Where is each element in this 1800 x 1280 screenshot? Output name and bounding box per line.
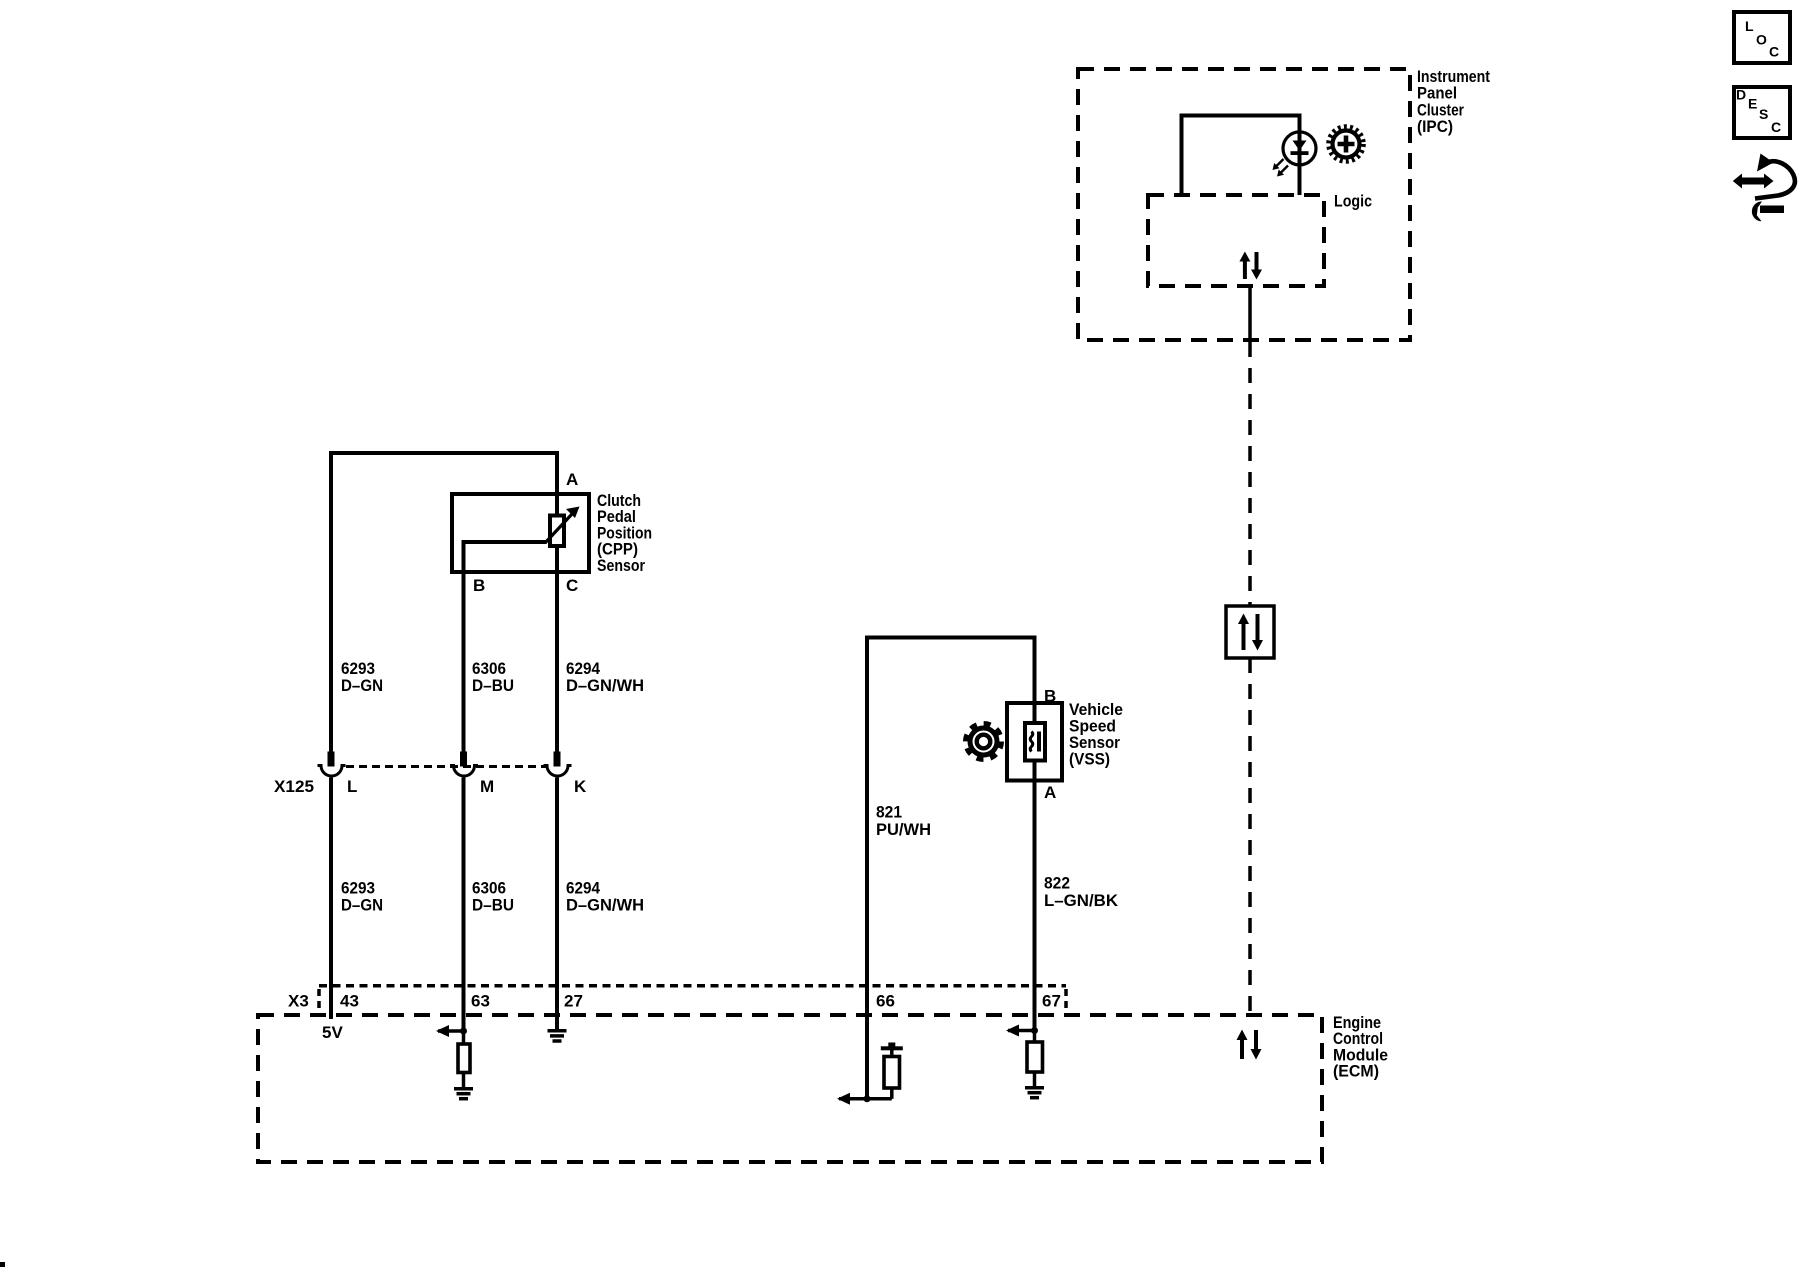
- wire: IPC top horizontal: [1180, 114, 1302, 118]
- svg-text:D: D: [1736, 87, 1746, 103]
- wire: 6293 lower vertical: [329, 778, 333, 1020]
- ECM serial data up/down arrows: [1237, 1030, 1262, 1060]
- wire: 821 vertical: [865, 638, 869, 1016]
- svg-text:D–BU: D–BU: [472, 676, 514, 695]
- wire: resistor R2 to junction: [890, 1088, 894, 1099]
- ground (pin 27): [548, 1031, 567, 1041]
- svg-text:C: C: [566, 576, 578, 595]
- wire: dashed data line upper: [1248, 342, 1252, 606]
- svg-text:L: L: [1745, 18, 1754, 34]
- svg-text:O: O: [1756, 32, 1767, 48]
- VSS gear icon: [966, 724, 1002, 760]
- Logic dashed box: [1148, 195, 1324, 286]
- wire label 6293 D-GN lower: [341, 878, 383, 914]
- connector pin K: [544, 752, 572, 777]
- svg-text:B: B: [1044, 687, 1056, 706]
- wire label 6306 D-BU lower: [472, 878, 514, 914]
- connector pin L: [318, 752, 346, 777]
- VSS box: [1007, 703, 1062, 781]
- CPP sensor label: [597, 491, 652, 575]
- supply terminal (pin 66 pull-up): [881, 1043, 903, 1057]
- wire label 6294 D-GN/WH lower: [566, 878, 644, 914]
- svg-text:6294: 6294: [566, 659, 600, 678]
- svg-text:6293: 6293: [341, 659, 375, 678]
- wire: 6294 vertical pin C: [555, 544, 559, 752]
- svg-text:6294: 6294: [566, 878, 600, 897]
- svg-text:M: M: [480, 777, 494, 796]
- svg-text:27: 27: [564, 991, 583, 1010]
- svg-text:63: 63: [471, 991, 490, 1010]
- svg-text:X3: X3: [288, 991, 309, 1010]
- connector pin M: [450, 752, 478, 777]
- wire: pin A vertical: [555, 453, 559, 517]
- svg-text:PU/WH: PU/WH: [876, 820, 931, 839]
- svg-text:E: E: [1748, 95, 1757, 111]
- wire: resistor R3 to ground: [1033, 1072, 1037, 1086]
- svg-text:D–GN: D–GN: [341, 896, 383, 915]
- svg-text:5V: 5V: [322, 1023, 343, 1042]
- svg-text:K: K: [574, 777, 587, 796]
- ground (pin 63): [454, 1089, 473, 1099]
- wire: 6294 lower vertical: [555, 778, 559, 1031]
- wire: pin 66 inside ECM: [865, 1015, 869, 1099]
- IPC gear icon: [1329, 127, 1364, 162]
- signal arrow (pin 63): [436, 1025, 464, 1037]
- resistor R3 (pin 67 pull-down): [1027, 1042, 1043, 1072]
- CPP wiper horizontal wire: [462, 540, 547, 544]
- svg-text:D–GN/WH: D–GN/WH: [566, 676, 644, 695]
- svg-text:(IPC): (IPC): [1417, 117, 1453, 136]
- ECM dashed box: [258, 1015, 1322, 1162]
- svg-text:A: A: [566, 470, 578, 489]
- junction dot (pin 67): [1031, 1027, 1038, 1034]
- page corner mark: [0, 1262, 5, 1267]
- wire label 6293 D-GN upper: [341, 659, 383, 695]
- svg-text:X125: X125: [274, 777, 314, 796]
- wire: VSS top horizontal: [865, 636, 1037, 640]
- logic up/down arrows: [1239, 252, 1262, 280]
- svg-text:L: L: [347, 777, 357, 796]
- resistor R2 (pin 66 pull-up): [884, 1057, 900, 1089]
- svg-text:67: 67: [1042, 991, 1061, 1010]
- svg-text:C: C: [1771, 119, 1781, 135]
- signal arrow (pin 66): [837, 1093, 892, 1105]
- svg-text:6306: 6306: [472, 878, 506, 897]
- wire: LED branch vertical: [1298, 114, 1302, 196]
- svg-text:(ECM): (ECM): [1333, 1062, 1379, 1081]
- CPP wiper arrow: [545, 507, 580, 544]
- svg-text:43: 43: [340, 991, 359, 1010]
- X125 dashed line: [346, 765, 548, 768]
- wire: IPC left vertical: [1180, 114, 1184, 196]
- svg-text:66: 66: [876, 991, 895, 1010]
- wire label 821 PU/WH: [876, 803, 931, 839]
- svg-text:A: A: [1044, 783, 1056, 802]
- wire: VSS pin B vertical: [1033, 638, 1037, 724]
- IPC label: [1417, 67, 1490, 136]
- svg-text:B: B: [473, 576, 485, 595]
- svg-text:L–GN/BK: L–GN/BK: [1044, 891, 1119, 910]
- resistor R1 (pin 63 pull-down): [458, 1044, 470, 1073]
- wire: dashed data line lower: [1248, 658, 1252, 1015]
- wire label 6306 D-BU upper: [472, 659, 514, 695]
- wire: resistor R1 to ground: [462, 1073, 466, 1088]
- svg-text:D–GN/WH: D–GN/WH: [566, 896, 644, 915]
- ground (pin 67): [1025, 1088, 1044, 1098]
- wire: 6293 upper vertical: [329, 453, 333, 752]
- indicator LED lamp: [1273, 132, 1317, 177]
- svg-text:822: 822: [1044, 874, 1070, 893]
- X3 connector dotted strip: [319, 986, 1066, 1013]
- LOC box: [1734, 12, 1790, 63]
- data direction box: [1226, 606, 1274, 658]
- wire: logic box to IPC border: [1248, 286, 1252, 340]
- svg-text:821: 821: [876, 803, 902, 822]
- wire label 822 L-GN/BK: [1044, 874, 1119, 910]
- wire: 6306 vertical pin B: [462, 542, 466, 752]
- junction dot (pin 63): [460, 1028, 467, 1035]
- svg-text:6306: 6306: [472, 659, 506, 678]
- ECM label: [1333, 1013, 1388, 1081]
- wire: CPP top horizontal: [329, 451, 559, 455]
- data box up/down arrows: [1238, 614, 1263, 651]
- wire: 6306 lower vertical: [462, 778, 466, 1032]
- junction dot (pin 66): [864, 1095, 871, 1102]
- svg-text:(VSS): (VSS): [1069, 750, 1110, 769]
- svg-text:D–GN: D–GN: [341, 676, 383, 695]
- svg-text:D–BU: D–BU: [472, 896, 514, 915]
- CPP potentiometer element: [550, 516, 564, 547]
- wire: junction to resistor R3: [1033, 1031, 1037, 1043]
- svg-text:6293: 6293: [341, 878, 375, 897]
- svg-text:Logic: Logic: [1334, 191, 1372, 210]
- CPP sensor box: [452, 494, 589, 572]
- IPC dashed box: [1078, 69, 1410, 340]
- wire label 6294 D-GN/WH upper: [566, 659, 644, 695]
- wire: 822 vertical: [1033, 761, 1037, 1031]
- signal arrow (pin 67): [1006, 1025, 1035, 1037]
- svg-text:Sensor: Sensor: [597, 556, 645, 575]
- DESC box: [1734, 87, 1790, 138]
- diagnostic pointer/wrench icon: [1733, 154, 1795, 222]
- svg-text:S: S: [1759, 106, 1768, 122]
- VSS sensor element: [1025, 723, 1045, 761]
- svg-text:C: C: [1769, 44, 1779, 60]
- wire: junction to resistor R1: [462, 1031, 466, 1044]
- VSS label: [1069, 700, 1123, 769]
